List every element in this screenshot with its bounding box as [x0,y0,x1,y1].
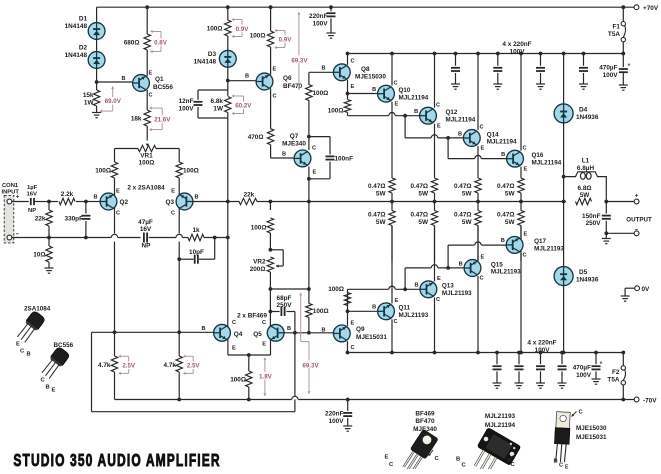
svg-text:0.9V: 0.9V [236,26,250,33]
svg-text:D2: D2 [79,45,88,52]
svg-text:68pF: 68pF [277,295,292,302]
svg-text:100Ω: 100Ω [183,168,199,175]
svg-text:Q12: Q12 [446,109,458,116]
svg-text:330pF: 330pF [65,216,84,223]
svg-text:100Ω: 100Ω [230,377,246,384]
svg-text:0.47Ω: 0.47Ω [497,183,515,190]
svg-text:BC556: BC556 [54,342,74,349]
svg-text:200Ω: 200Ω [250,266,266,273]
svg-text:C: C [232,320,236,326]
svg-text:E: E [395,101,399,107]
svg-text:C: C [394,319,398,325]
svg-text:12nF: 12nF [179,98,194,105]
svg-text:Q1: Q1 [155,76,164,83]
svg-text:5W: 5W [376,219,387,226]
svg-text:Q11: Q11 [399,305,411,312]
svg-text:F2: F2 [612,369,620,376]
svg-text:0.47Ω: 0.47Ω [454,183,472,190]
svg-text:16V: 16V [140,226,152,233]
svg-text:+70V: +70V [643,5,659,12]
svg-text:VR2: VR2 [253,258,266,265]
svg-text:B: B [93,195,97,201]
svg-text:Q8: Q8 [361,66,370,73]
svg-text:C: C [394,80,398,86]
svg-text:0.9V: 0.9V [279,36,293,43]
svg-text:22k: 22k [35,216,46,223]
svg-text:100Ω: 100Ω [251,225,267,232]
svg-text:C: C [149,93,153,99]
svg-text:E: E [395,298,399,304]
svg-text:250V: 250V [277,302,293,309]
svg-text:C: C [480,125,484,131]
svg-text:B: B [414,109,418,115]
svg-text:MJL21193: MJL21193 [442,290,472,297]
svg-text:1µF: 1µF [27,185,38,191]
svg-text:100V: 100V [510,49,526,56]
svg-text:B: B [201,326,205,332]
svg-text:C: C [171,211,175,217]
svg-text:Q9: Q9 [356,326,365,333]
svg-text:E: E [16,342,20,348]
svg-text:MJE15031: MJE15031 [576,434,607,441]
svg-text:6.8µH: 6.8µH [577,165,595,172]
svg-text:+: + [628,63,631,69]
svg-text:100Ω: 100Ω [207,25,223,32]
svg-text:MJE15031: MJE15031 [356,334,387,341]
svg-text:6.8Ω: 6.8Ω [577,185,591,192]
svg-text:D3: D3 [208,51,217,58]
svg-text:1N4936: 1N4936 [576,277,599,284]
svg-text:0V: 0V [642,286,651,293]
svg-text:2 x 2SA1084: 2 x 2SA1084 [127,185,165,192]
svg-text:470Ω: 470Ω [248,134,264,141]
svg-text:D1: D1 [79,16,88,23]
svg-text:MJL21194: MJL21194 [485,422,516,429]
svg-text:B: B [372,305,376,311]
svg-text:10pF: 10pF [189,249,204,256]
svg-text:Q7: Q7 [290,133,299,140]
svg-text:E: E [385,455,389,461]
svg-text:100Ω: 100Ω [250,32,266,39]
svg-text:B: B [27,352,31,358]
svg-text:STUDIO 350 AUDIO AMPLIFIER: STUDIO 350 AUDIO AMPLIFIER [13,452,220,469]
svg-text:0.47Ω: 0.47Ω [368,183,386,190]
svg-text:5W: 5W [462,190,473,197]
svg-text:1W: 1W [213,106,224,113]
svg-text:NP: NP [28,208,36,214]
svg-text:0.47Ω: 0.47Ω [454,212,472,219]
svg-text:MJL21193: MJL21193 [534,246,564,253]
svg-text:D4: D4 [579,107,588,114]
svg-text:E: E [52,388,56,394]
svg-text:0.47Ω: 0.47Ω [497,212,515,219]
svg-text:E: E [116,189,120,195]
svg-text:B: B [46,385,50,391]
svg-text:4.7k: 4.7k [164,362,177,369]
svg-text:Q10: Q10 [399,87,411,94]
svg-text:6.8k: 6.8k [211,98,224,105]
svg-text:C: C [351,345,355,351]
svg-text:BF470: BF470 [415,418,435,425]
svg-text:E: E [171,189,175,195]
svg-text:4.7k: 4.7k [98,362,111,369]
svg-text:1W: 1W [84,100,95,107]
svg-text:Q2: Q2 [120,199,129,206]
svg-text:+: + [600,361,603,367]
svg-text:Q13: Q13 [442,283,454,290]
svg-text:MJE15030: MJE15030 [355,74,386,81]
svg-text:OUTPUT: OUTPUT [626,217,652,224]
svg-text:150nF: 150nF [582,213,601,220]
svg-text:B: B [458,131,462,137]
svg-text:2 x BF469: 2 x BF469 [237,313,267,320]
svg-text:1.8V: 1.8V [259,374,273,381]
svg-text:2.5V: 2.5V [187,363,201,370]
svg-text:F1: F1 [613,23,621,30]
svg-text:MJL21193: MJL21193 [399,312,429,319]
svg-text:Q16: Q16 [532,152,544,159]
svg-text:-70V: -70V [643,397,657,404]
svg-text:4 x 220nF: 4 x 220nF [527,340,556,347]
svg-text:69.0V: 69.0V [105,98,122,105]
svg-text:E: E [149,71,153,77]
svg-text:100nF: 100nF [335,156,354,163]
svg-text:18k: 18k [131,115,142,122]
svg-text:Q15: Q15 [491,261,503,268]
svg-text:MJL21194: MJL21194 [446,116,476,123]
svg-text:B: B [456,457,460,463]
svg-text:C: C [262,320,266,326]
svg-text:B: B [245,74,249,80]
svg-text:MJL21194: MJL21194 [532,159,562,166]
svg-text:100V: 100V [535,347,551,354]
svg-text:16V: 16V [27,191,38,197]
svg-text:E: E [524,232,528,238]
svg-text:VR1: VR1 [140,152,153,159]
svg-text:MJE340: MJE340 [282,141,306,148]
svg-text:100V: 100V [576,372,592,379]
svg-text:B: B [501,152,505,158]
svg-text:C: C [436,297,440,303]
svg-text:B: B [195,195,199,201]
svg-text:C: C [480,276,484,282]
svg-text:5W: 5W [580,192,591,199]
svg-text:MJE340: MJE340 [413,426,437,433]
svg-text:E: E [262,342,266,348]
svg-text:1N4148: 1N4148 [65,23,88,30]
svg-text:C: C [116,211,120,217]
svg-text:E: E [232,346,236,352]
svg-text:100Ω: 100Ω [313,90,329,97]
svg-text:C: C [436,102,440,108]
svg-text:220nF: 220nF [325,411,344,418]
svg-text:5W: 5W [505,190,516,197]
svg-text:T5A: T5A [607,376,619,383]
svg-text:1k: 1k [192,227,200,234]
svg-text:B: B [121,76,125,82]
svg-text:2.5V: 2.5V [122,363,136,370]
svg-text:69.3V: 69.3V [291,57,308,64]
svg-text:1N4148: 1N4148 [194,59,217,66]
svg-text:100V: 100V [603,72,619,79]
svg-text:NP: NP [142,243,152,250]
svg-text:B: B [321,328,325,334]
svg-text:C: C [273,94,277,100]
svg-text:1N4148: 1N4148 [65,52,88,59]
svg-text:470µF: 470µF [599,65,617,72]
svg-text:5W: 5W [418,219,429,226]
svg-text:1N4936: 1N4936 [576,114,599,121]
svg-text:BF470: BF470 [283,83,303,90]
svg-text:0.8V: 0.8V [154,39,168,46]
svg-text:60.2V: 60.2V [235,102,252,109]
svg-text:MJL21194: MJL21194 [399,94,429,101]
svg-text:E: E [437,276,441,282]
svg-text:10Ω: 10Ω [33,252,45,259]
svg-text:B: B [415,283,419,289]
svg-text:C: C [523,145,527,151]
svg-text:E: E [351,321,355,327]
svg-text:MJE15030: MJE15030 [576,425,607,432]
svg-text:E: E [481,146,485,152]
svg-text:5W: 5W [462,219,473,226]
svg-text:69.3V: 69.3V [302,362,319,369]
svg-text:Q5: Q5 [253,331,262,338]
svg-text:E: E [313,170,317,176]
svg-text:5W: 5W [505,219,516,226]
svg-text:B: B [287,326,291,332]
svg-text:470µF: 470µF [573,365,591,372]
svg-text:100V: 100V [329,418,345,425]
svg-text:5W: 5W [376,190,387,197]
svg-text:B: B [282,152,286,158]
svg-text:C: C [523,253,527,259]
svg-text:B: B [321,66,325,72]
svg-text:E: E [437,123,441,129]
svg-text:T5A: T5A [608,31,620,38]
svg-text:B: B [459,261,463,267]
svg-text:Q3: Q3 [165,199,174,206]
svg-text:220nF: 220nF [309,13,328,20]
svg-text:B: B [554,459,558,465]
svg-text:2SA1084: 2SA1084 [24,306,51,313]
svg-text:BF469: BF469 [415,411,435,418]
svg-text:21.6V: 21.6V [154,116,171,123]
svg-text:E: E [524,166,528,172]
svg-text:2.2k: 2.2k [61,191,74,198]
svg-text:L1: L1 [582,158,590,165]
svg-text:250V: 250V [586,220,602,227]
svg-text:Q14: Q14 [487,131,499,138]
svg-text:B: B [372,87,376,93]
svg-text:100Ω: 100Ω [328,108,344,115]
svg-text:E: E [481,255,485,261]
svg-text:0.47Ω: 0.47Ω [410,212,428,219]
svg-text:22k: 22k [244,191,255,198]
svg-text:100V: 100V [179,106,195,113]
svg-text:Q17: Q17 [534,238,546,245]
svg-text:680Ω: 680Ω [124,39,140,46]
svg-text:E: E [273,67,277,73]
svg-text:0.47Ω: 0.47Ω [368,212,386,219]
svg-text:+: + [635,193,639,199]
svg-text:+: + [16,195,20,201]
svg-text:E: E [351,84,355,90]
svg-text:C: C [351,59,355,65]
svg-text:MJL21193: MJL21193 [491,269,521,276]
svg-text:4 x 220nF: 4 x 220nF [502,41,531,48]
svg-text:Q4: Q4 [234,331,243,338]
svg-text:100Ω: 100Ω [313,308,329,315]
svg-text:CON1: CON1 [2,183,19,189]
svg-text:Q6: Q6 [283,75,292,82]
svg-text:0.47Ω: 0.47Ω [410,183,428,190]
svg-text:100Ω: 100Ω [95,168,111,175]
svg-text:15k: 15k [83,92,94,99]
svg-text:100Ω: 100Ω [328,286,344,293]
svg-text:MJL21193: MJL21193 [485,413,516,420]
svg-text:100Ω: 100Ω [139,159,155,166]
svg-text:BC556: BC556 [153,84,173,91]
svg-text:B: B [501,238,505,244]
svg-text:5W: 5W [418,190,429,197]
svg-text:100V: 100V [313,20,329,27]
svg-text:D5: D5 [579,269,588,276]
svg-text:C: C [312,146,316,152]
svg-text:47µF: 47µF [138,219,153,226]
svg-text:MJL21194: MJL21194 [487,139,517,146]
